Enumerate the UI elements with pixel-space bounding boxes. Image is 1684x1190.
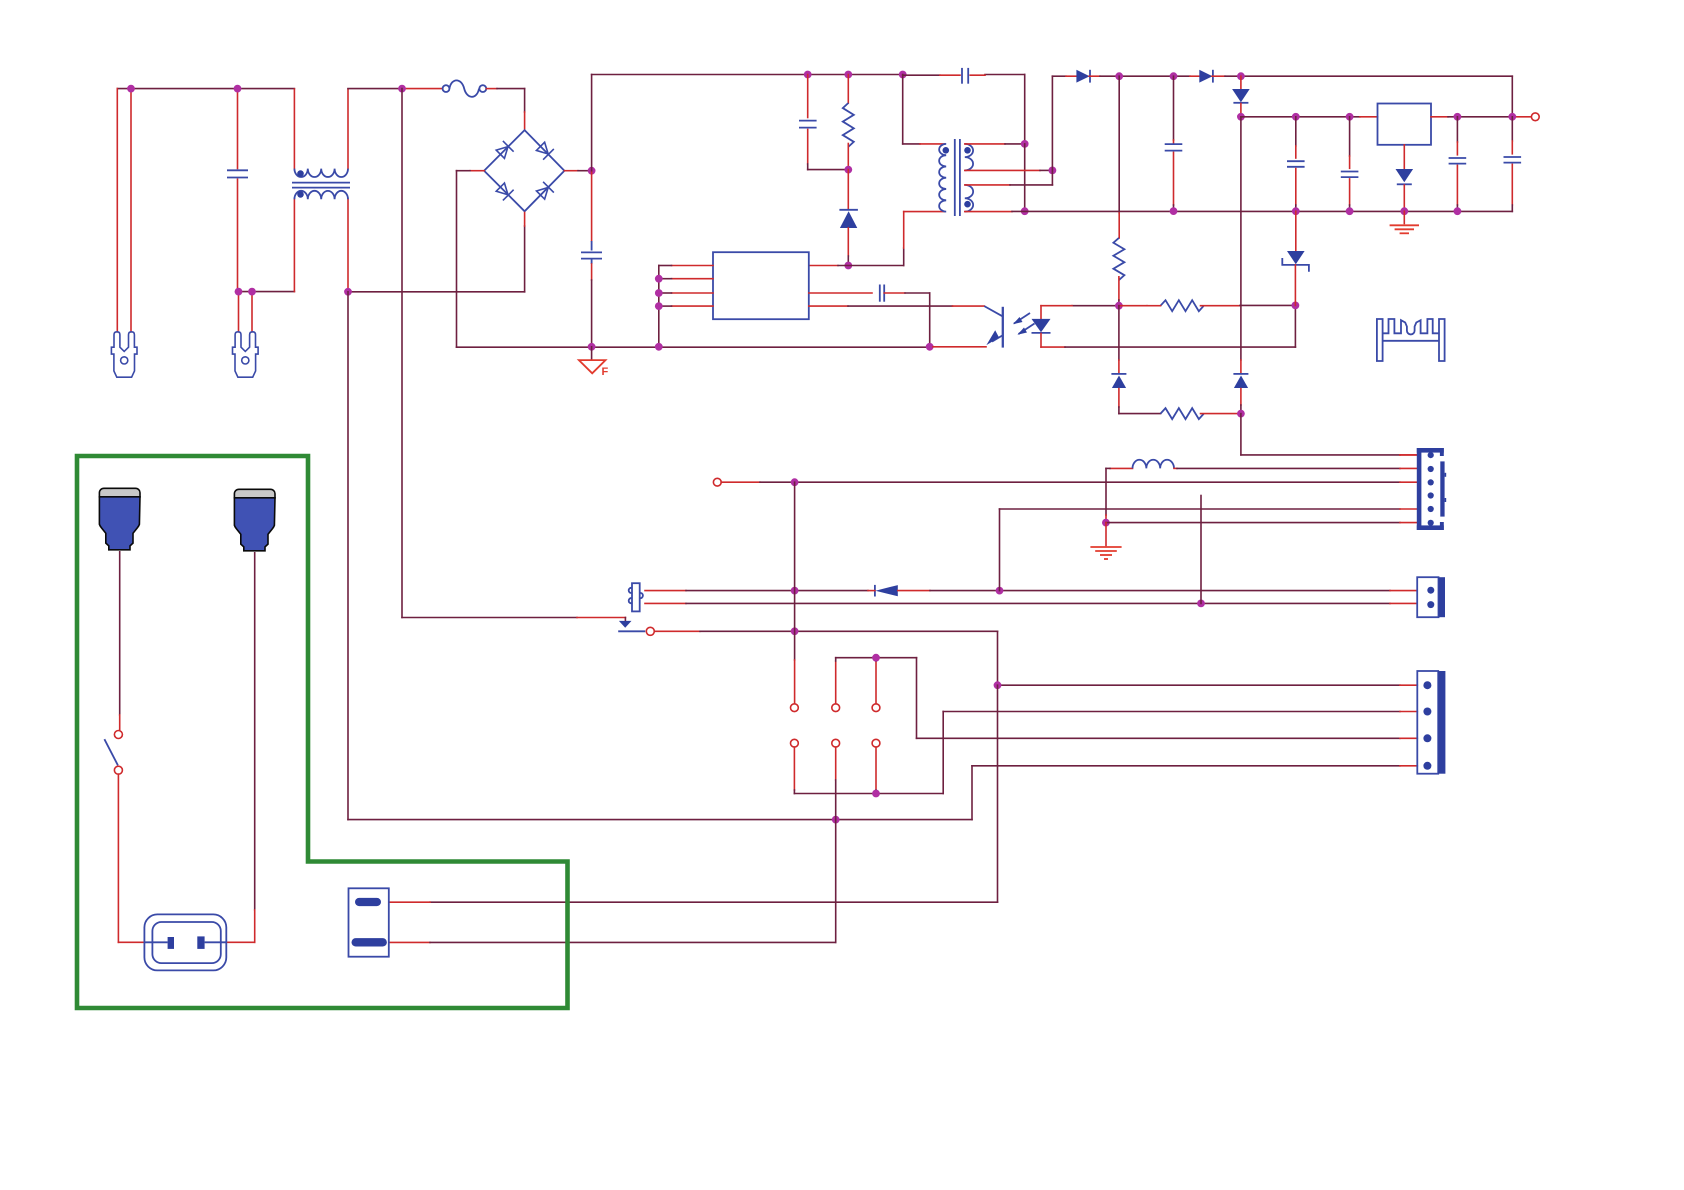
diode ZD1 triangle down: [1287, 251, 1305, 264]
node AC-N choke junction: [344, 288, 352, 296]
capacitor C8 plates: [1287, 160, 1305, 162]
wire Y-cap to S1 node: [985, 74, 1025, 76]
connector J3 pin 4: [1423, 762, 1431, 770]
wire S1 node to secondary rail: [1024, 144, 1026, 211]
diode U3 LED triangle: [1032, 319, 1051, 332]
connector P2 AC plug spade terminal: [233, 332, 259, 377]
wire D1 anode to drain node: [847, 228, 849, 256]
capacitor C5 snubber lead top: [807, 75, 809, 118]
wire SW2 pole1 bottom stub: [793, 747, 795, 790]
wire U1 opto pin row: [809, 305, 848, 307]
inductor L2 lead left: [1110, 467, 1133, 469]
node output junction: [1508, 113, 1516, 121]
inductor L2: [1133, 460, 1175, 469]
wire drop J1 row4 to J2 row2: [1200, 496, 1202, 604]
outlet J5 contact lines: [144, 941, 167, 943]
diode D4 lead from raw node: [1240, 76, 1242, 88]
wire plug P2 right prong: [251, 292, 253, 332]
node J4 tip row riser tie: [791, 587, 799, 595]
node U1 pins tie 3: [655, 302, 663, 310]
inductor L1 choke top-right lead: [347, 89, 349, 169]
wire J1 row6: [1106, 522, 1400, 524]
connector J3 body: [1417, 671, 1438, 774]
resistor R2 lead bottom: [1118, 277, 1120, 300]
inductor L1 bottom winding: [294, 191, 348, 199]
connector J1 pin 6: [1428, 520, 1434, 526]
connector J2 pin 1: [1427, 587, 1434, 594]
switch SW2 pole3 top circle: [872, 704, 880, 712]
node battery column tie: [832, 816, 840, 824]
node U1 pins tie 1: [655, 275, 663, 283]
connector J1 pin 1: [1428, 452, 1434, 458]
capacitor C5 plates: [799, 120, 817, 122]
jack J4 body: [632, 583, 640, 611]
wire D4 riser down: [1240, 117, 1242, 360]
node S1 rail tie: [1021, 207, 1029, 215]
heatsink HS1: [1377, 319, 1445, 361]
diode D6 bar: [1111, 373, 1126, 375]
resistor R2: [1113, 238, 1124, 280]
wire C3 leads: [903, 74, 940, 76]
wire fb node down to D6: [1118, 306, 1120, 360]
terminal jack switch circle: [646, 627, 654, 635]
capacitor C3 Y-cap plates: [961, 68, 963, 84]
inductor L1 top winding: [294, 169, 348, 177]
wire U2 mid pin: [1403, 145, 1405, 169]
wire RC junction to diode: [847, 170, 849, 209]
wire SW2 top tie row: [835, 661, 837, 704]
resistor R4: [1161, 408, 1204, 419]
diode D2 triangle: [1076, 70, 1089, 83]
node reg input row left: [1237, 113, 1245, 121]
node drain-snubber junction: [844, 262, 852, 270]
capacitor C9 plates: [1341, 171, 1359, 173]
capacitor C6 plates: [879, 285, 881, 302]
diode ZD1 zener lead top: [1295, 211, 1297, 250]
node S2 centre tap: [1049, 167, 1057, 175]
node C7 top tie: [1170, 72, 1178, 80]
wire AC-N row (cap to choke): [238, 291, 295, 293]
wire U1 left pin 1: [672, 265, 714, 267]
transformer T1 polarity dot sec bottom: [964, 201, 971, 208]
inductor L2 lead right: [1174, 467, 1177, 469]
resistor R1 lead bottom: [847, 144, 849, 170]
wire ZD1 to junction: [1294, 265, 1296, 306]
wire P4 to outlet: [254, 553, 256, 910]
connector J1 pin 4: [1428, 492, 1434, 498]
wire DC+ top bus: [591, 75, 593, 171]
node zener junction: [1292, 302, 1300, 310]
capacitor C10 plates: [1449, 157, 1467, 159]
node D2 cathode junction: [1115, 72, 1123, 80]
wire opto emitter to ground bus: [933, 346, 986, 348]
wire TP1 row to J1 row3: [721, 481, 760, 483]
diode D3 triangle: [1199, 70, 1212, 83]
node jack row / riser: [791, 627, 799, 635]
capacitor C1 X-cap lead top: [237, 89, 239, 169]
terminal TP1 open circle: [713, 478, 721, 486]
node U1 pins tie 2: [655, 289, 663, 297]
wire riser to battery top: [997, 685, 999, 902]
wire primary top pin: [902, 75, 904, 144]
transistor U3 opto emitter: [992, 336, 1002, 342]
wire S2 pin row: [965, 169, 1040, 171]
transformer T1 polarity dot primary: [943, 147, 950, 154]
wire U2 output row: [1431, 116, 1448, 118]
terminal output open circle: [1531, 113, 1539, 121]
node J1 row4 drop tie: [1197, 600, 1205, 608]
capacitor C11 lead top: [1511, 117, 1513, 141]
inductor L1 polarity dot top: [297, 170, 304, 177]
transformer T1 core: [954, 139, 956, 216]
node C9 top tie: [1346, 113, 1354, 121]
connector J3 pin 1: [1423, 681, 1431, 689]
transformer T1 polarity dot sec top: [964, 147, 971, 154]
wire J4 tip pin row: [645, 590, 686, 592]
wire D5 to rail: [1403, 185, 1405, 211]
inductor L1 choke bottom-left lead: [293, 199, 295, 291]
wire opto LED cathode: [1040, 334, 1042, 348]
connector P4 USB plug: [234, 489, 275, 498]
capacitor C2 bulk lead top: [591, 171, 593, 241]
resistor R1 snubber: [843, 103, 854, 147]
opto light arrow 2: [1019, 324, 1035, 335]
wire jack row to matrix: [654, 630, 700, 632]
wire U1 left pins common: [658, 266, 660, 347]
capacitor C1 lead bottom: [237, 179, 239, 291]
wire S3 pin row: [965, 184, 1010, 186]
node snubber resistor top: [844, 71, 852, 79]
inductor L1 core lines: [292, 182, 350, 184]
switch SW1 circle bottom: [114, 766, 122, 774]
bridge BR1 diode bottom-right: [535, 182, 554, 201]
wire centre tap to D2: [1052, 75, 1066, 77]
diode U3 LED bar: [1032, 332, 1051, 334]
capacitor C7 lead bottom: [1173, 152, 1175, 205]
outlet J5 inner: [152, 922, 220, 963]
opto light arrow 1: [1014, 313, 1030, 324]
transistor U3 opto base bar: [1002, 307, 1004, 348]
wire J3 row2 drop: [942, 712, 944, 794]
connector P1 AC plug spade terminal: [111, 332, 137, 377]
node C8 top tie: [1292, 113, 1300, 121]
node feedback split: [1115, 302, 1123, 310]
wire IC drain pin row: [809, 265, 838, 267]
connector J1 pin 3: [1428, 479, 1434, 485]
wire mains-N drop: [347, 292, 349, 820]
diode D3 cathode bar: [1212, 70, 1214, 83]
wire D3 to output corner: [1212, 75, 1225, 77]
switch SW2 pole1 top circle: [791, 704, 799, 712]
transformer T1 primary winding: [939, 144, 946, 212]
resistor R2 lead top: [1118, 76, 1120, 213]
wire plug P2 left prong: [238, 292, 240, 332]
node bridge plus: [588, 167, 596, 175]
capacitor C8 lead bottom: [1295, 169, 1297, 205]
wire J1 row1 stub: [1400, 454, 1417, 456]
node C2 on primary ground bus: [588, 343, 596, 351]
connector P3 USB plug: [99, 488, 140, 497]
inductor L1 polarity dot bottom: [297, 191, 304, 198]
wire SW2 top row to J3 row3: [916, 658, 918, 739]
wire SW2 bottom tie row: [794, 793, 943, 795]
node C6 ground tie: [926, 343, 934, 351]
node snubber cap top: [804, 71, 812, 79]
diode D1 snubber cathode bar: [839, 209, 858, 211]
diode ZD1 zener bar: [1282, 258, 1309, 272]
connector J2 body: [1417, 577, 1438, 617]
diode D7 triangle up: [1234, 376, 1248, 389]
node S1 junction: [1021, 140, 1029, 148]
switch SW2 pole2 bottom circle: [832, 739, 840, 747]
capacitor C2 plates: [581, 251, 602, 253]
wire bridge plus output: [564, 170, 578, 172]
outlet J5 pin left: [168, 937, 174, 949]
node snubber RC junction: [844, 166, 852, 174]
wire choke to fuse: [348, 88, 402, 90]
node P2 left prong on AC-N: [235, 288, 243, 296]
capacitor C10 lead top: [1456, 117, 1458, 142]
resistor R3: [1161, 300, 1204, 311]
node J3 row1 riser: [994, 681, 1002, 689]
node U1 ground tie: [655, 343, 663, 351]
wire centre tap riser: [1051, 76, 1053, 185]
capacitor C11 lead bottom: [1511, 164, 1513, 205]
switch SW1 lever: [104, 739, 118, 765]
wire battery bottom row: [389, 941, 430, 943]
ground G2 secondary earth: [1105, 523, 1107, 546]
diode D4 bar: [1233, 102, 1248, 104]
wire D6 to R4: [1118, 389, 1120, 407]
inductor L1 choke bottom-right lead: [347, 199, 349, 292]
jack J4 contact loops: [629, 588, 632, 593]
node on AC-L at P1 right prong: [127, 85, 135, 93]
connector B1 pin bottom: [352, 938, 387, 946]
wire AC-N to bridge bottom: [348, 291, 525, 293]
capacitor C1 plates: [227, 169, 248, 171]
wire riser J2 row1 to J1 row5: [999, 509, 1001, 591]
wire SW2 pole2 bottom stub: [835, 747, 837, 780]
node C7 rail tie: [1170, 207, 1178, 215]
fuse F1 left circle: [443, 85, 450, 92]
diode D6 triangle up: [1112, 376, 1126, 389]
node D5 rail tie: [1400, 207, 1408, 215]
connector J1 frame: [1417, 448, 1422, 530]
ground G3 regulator earth: [1403, 211, 1405, 223]
svg-text:F: F: [602, 366, 609, 378]
wire U1 fb pin row: [809, 292, 872, 294]
wire regulator input row: [1241, 116, 1360, 118]
wire bridge minus output: [470, 170, 484, 172]
wire opto LED anode row: [1072, 305, 1119, 307]
node primary top pin tap: [899, 71, 907, 79]
diode D5 bar: [1397, 183, 1412, 185]
wire riser TP1-row to jack-row: [794, 482, 796, 660]
wire S4 pin row / secondary rail: [965, 211, 1012, 213]
capacitor C8 lead top: [1295, 117, 1297, 146]
capacitor C7 lead top: [1173, 76, 1175, 140]
wire C6 to ground bus: [884, 292, 905, 294]
outlet J5 pin right: [197, 936, 204, 949]
node J2 row1 riser tie: [996, 587, 1004, 595]
fuse F1 right circle: [479, 85, 486, 92]
connector J1 pin 5: [1428, 506, 1434, 512]
wire D4 to reg input row: [1240, 104, 1242, 115]
diode D1 snubber triangle: [840, 211, 857, 228]
diode D8 bar: [874, 585, 876, 597]
ic U1 controller body: [713, 252, 809, 319]
wire AC-L top bus (plug P1 to choke): [117, 88, 294, 90]
bridge rectifier BR1 diamond: [484, 130, 564, 211]
capacitor C2 lead bottom: [591, 259, 593, 264]
fuse F1 element: [449, 80, 479, 97]
node fused-line tap: [398, 85, 406, 93]
wire D8 leads: [868, 590, 875, 592]
wire riser to J3 row4: [971, 766, 973, 820]
jack J4 switch contact line: [618, 630, 645, 632]
wire drain to primary bottom pin: [903, 248, 905, 266]
bridge BR1 diode bottom-left: [495, 182, 514, 201]
wire U1 left pin 2: [672, 278, 714, 280]
capacitor C5 lead bottom: [807, 130, 809, 165]
resistor R1 snubber lead top: [847, 75, 849, 104]
wire SW2 pole3 top stub: [875, 661, 877, 704]
capacitor C9 lead top: [1349, 117, 1351, 156]
switch SW1 circle top: [114, 731, 122, 739]
node C10 rail tie: [1454, 207, 1462, 215]
regulator U2 body: [1378, 104, 1432, 145]
wire jack switch arm drop: [624, 618, 626, 621]
bridge BR1 diode top-right: [535, 141, 554, 160]
wire D2 to D3: [1089, 75, 1100, 77]
connector B1 body: [349, 888, 389, 956]
node C10 top tie: [1454, 113, 1462, 121]
diode D4 triangle down: [1232, 89, 1250, 102]
wire fb node to R3: [1119, 305, 1147, 307]
node D7 junction: [1237, 410, 1245, 418]
wire R3 leads: [1147, 305, 1161, 307]
wire primary ground bus: [457, 346, 930, 348]
connector B1 pin top: [355, 898, 381, 906]
wire D7 node to connector row1: [1240, 414, 1242, 455]
node SW2 bottom tie: [872, 790, 880, 798]
capacitor C11 plates: [1504, 156, 1522, 158]
wire D7 anode: [1240, 389, 1242, 405]
node C9 rail tie: [1346, 207, 1354, 215]
node C8 rail tie: [1292, 207, 1300, 215]
node D3 out junction: [1237, 72, 1245, 80]
capacitor C7 plates: [1165, 143, 1183, 145]
wire plug P1 left prong: [116, 89, 118, 332]
node P2 right prong on AC-N: [248, 288, 256, 296]
switch SW2 pole2 top circle: [832, 704, 840, 712]
wire U1 left pin 4: [672, 305, 714, 307]
wire S1 pin row: [965, 143, 1005, 145]
connector J1 pin 2: [1428, 466, 1434, 472]
transformer T1 secondary winding top: [965, 144, 973, 171]
wire U1 left pin 3: [672, 292, 714, 294]
transistor U3 opto collector: [984, 306, 1002, 316]
wire SW2 pole3 bottom stub: [875, 747, 877, 790]
node C1 top on AC-L bus: [234, 85, 242, 93]
connector J2 pin 2: [1427, 601, 1434, 608]
connector J3 pin 3: [1423, 734, 1431, 742]
inductor L1 choke top-left lead: [293, 89, 295, 169]
outlet J5 outer: [144, 914, 226, 970]
wire J4 sleeve pin row: [645, 602, 686, 604]
node SW2 top tie: [872, 654, 880, 662]
node ground row6 tie: [1102, 519, 1110, 527]
switch SW2 pole3 bottom circle: [872, 739, 880, 747]
jack J4 switch arrow: [619, 621, 632, 628]
connector J3 pin 2: [1423, 708, 1431, 716]
node TP1 row riser tie: [791, 478, 799, 486]
ground F primary floating ground: [591, 347, 593, 360]
diode D2 cathode bar: [1089, 70, 1091, 83]
wire J3 row1: [998, 684, 1401, 686]
wire SW1 to outlet: [117, 774, 119, 942]
switch SW2 pole1 bottom circle: [791, 739, 799, 747]
transformer T1 secondary winding bottom: [965, 185, 973, 212]
wire plug P1 right prong: [130, 89, 132, 332]
bridge BR1 diode top-left: [495, 141, 514, 160]
wire P3 to switch: [119, 552, 121, 715]
diode D5 triangle down: [1396, 169, 1414, 182]
diode D8 triangle left: [875, 585, 897, 596]
green enclosure outline: [77, 456, 568, 1008]
wire fuse to bridge top: [486, 88, 497, 90]
wire R4 to D7 node: [1201, 413, 1238, 415]
wire mains-L drop: [401, 89, 403, 618]
capacitor C9 lead bottom: [1349, 179, 1351, 205]
diode D7 bar: [1233, 373, 1248, 375]
wire L2 to ground: [1105, 468, 1107, 515]
capacitor C10 lead bottom: [1456, 165, 1458, 205]
